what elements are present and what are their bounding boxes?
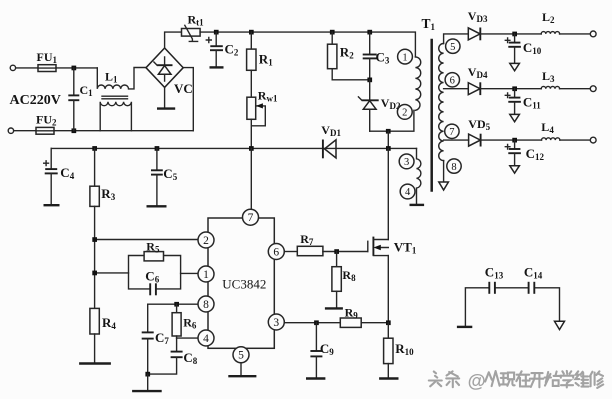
node: R8 tap on gate wire (334, 249, 339, 254)
node: C12 top (512, 138, 517, 143)
node: R6 top on pin8 wire (174, 302, 179, 307)
resistor R2 (328, 32, 370, 80)
wire: output rail 1 (480, 33, 590, 35)
node: pin7 riser (249, 146, 254, 151)
diode VD3 (468, 28, 480, 41)
output terminal 1 (590, 31, 596, 37)
wire: pin 4 to R6/C8 (177, 337, 199, 339)
resistor R6 (172, 304, 181, 338)
ground (C2) (210, 66, 224, 68)
wire: output rail 3 (481, 139, 591, 141)
wire: secondary tap to VD5 (444, 139, 469, 141)
zener diode VD2 (358, 80, 378, 131)
thermistor Rt1 (182, 25, 201, 41)
node: C9 tap (314, 320, 319, 325)
resistor R9 (340, 318, 361, 327)
input terminal bottom (N) (8, 128, 13, 133)
ground (C5) (147, 205, 167, 207)
transformer T1 primary winding (1-2) (415, 57, 420, 110)
svg-text:4: 4 (405, 187, 411, 198)
svg-text:5: 5 (238, 350, 244, 362)
diode VD4 (468, 82, 480, 95)
capacitor C9 (310, 323, 322, 378)
IC pin 2 circle (198, 232, 214, 248)
pin 2 circle (397, 105, 412, 120)
node: C2 top (214, 30, 219, 35)
capacitor C8 (148, 338, 183, 374)
svg-text:8: 8 (451, 162, 456, 173)
ground (bridge) (157, 107, 175, 109)
inductor L1 core (102, 96, 128, 99)
ground arrow (C12) (510, 166, 520, 173)
IC pin 1 circle (198, 266, 214, 282)
wire: pin 8 to C7 (148, 303, 199, 305)
node: drain riser top (386, 129, 391, 134)
capacitor C3 (363, 32, 377, 80)
node: C6 wire on R3 column (92, 271, 97, 276)
capacitor C6 plates (150, 283, 156, 295)
transformer T1 secondary winding (5-8) (439, 44, 444, 161)
bridge rectifier VC (146, 48, 183, 87)
svg-text:AC220V: AC220V (10, 93, 61, 108)
wire: terminal to FU2 (14, 130, 36, 132)
pin 6 circle (445, 73, 459, 87)
ground arrow (C11) (510, 114, 520, 121)
IC pin 8 circle (198, 296, 214, 312)
wire: FU1 to choke (live rail) (56, 67, 97, 69)
ground (C4) (44, 204, 60, 206)
input terminal top (L) (10, 65, 15, 70)
wire: pin 2 to R3/R4 node (95, 239, 199, 241)
svg-text:1: 1 (203, 269, 209, 281)
diode VD5 (469, 134, 481, 147)
wire: terminal to FU1 (16, 67, 38, 69)
wire: secondary bottom lead (443, 161, 445, 182)
svg-text:7: 7 (248, 212, 254, 224)
IC pin 7 circle (243, 209, 259, 225)
pin 5 circle (446, 39, 460, 53)
wire: pin 7 riser (250, 148, 252, 209)
transformer T1 feedback winding (3-4) (417, 148, 421, 203)
wire: pin 3 to source node (284, 322, 388, 324)
ground (R4) (79, 362, 111, 364)
wire: VCC rail (51, 147, 416, 149)
capacitor C4 (polarized) (44, 148, 58, 204)
capacitor C6 loop (R5 parallel C6) (129, 256, 181, 289)
inductor L1 bottom winding (100, 102, 131, 131)
node: C1 bottom junction (72, 128, 77, 133)
wire: drain riser to VCC rail crossing (387, 131, 389, 148)
node: C11 top (512, 86, 517, 91)
capacitor C14 (529, 282, 535, 294)
resistor R3 (90, 148, 99, 308)
wire: secondary mid tap to VD4 (444, 88, 469, 90)
capacitor C1 (68, 68, 79, 131)
IC pin 3 circle (268, 314, 284, 330)
node: pin2 wire on R3 column (92, 237, 97, 242)
svg-text:6: 6 (450, 76, 455, 87)
resistor R4 (90, 308, 99, 362)
node: C7/C8 bottom junction (145, 372, 150, 377)
svg-text:VC: VC (174, 81, 193, 96)
wire: R7 to gate (323, 251, 368, 253)
pin 3 circle (399, 154, 414, 169)
op IC UC3842 box (208, 218, 274, 348)
svg-text:@: @ (468, 370, 486, 391)
pin 8 circle (447, 159, 461, 173)
node: C3 top (367, 30, 372, 35)
resistor R1 (247, 32, 256, 97)
fuse FU1 (38, 65, 56, 72)
resistor R10 (384, 323, 393, 378)
ground (C7/C8) (132, 390, 162, 392)
node: R1 top (249, 30, 254, 35)
svg-text:UC3842: UC3842 (222, 277, 266, 292)
transformer T1 core (430, 39, 433, 192)
inductor L1 top winding (97, 68, 146, 89)
ground (C9) (306, 377, 325, 379)
wire: C6 loop to pin 1 (181, 272, 199, 274)
wire: C6 network left lead (95, 272, 129, 274)
ground (R8) (325, 307, 343, 309)
svg-text:2: 2 (402, 108, 407, 119)
ground (pin 4 lead) (410, 204, 425, 206)
IC pin 4 circle (198, 330, 214, 346)
diode VD1 (323, 140, 336, 159)
capacitor C10 (polarized) (505, 34, 521, 63)
ground arrow (C10) (510, 63, 520, 70)
wire: C13/C14 link (465, 288, 559, 326)
wire: neutral rail under choke (54, 130, 193, 132)
node: C10 top (512, 32, 517, 37)
potentiometer Rw1 (247, 97, 265, 148)
IC pin 5 circle (233, 347, 249, 363)
node: source column junction (386, 320, 391, 325)
node: drain column on rail (386, 146, 391, 151)
IC pin 6 circle (268, 244, 284, 260)
pin 7 circle (445, 124, 459, 138)
output terminal 3 (590, 137, 596, 143)
ground arrow (C14 right) (555, 321, 565, 329)
wire: pin 5 to ground (240, 363, 242, 375)
inductor L2 (541, 32, 559, 34)
inductor L3 (541, 86, 559, 88)
svg-text:4: 4 (203, 333, 209, 345)
wire: bridge bottom to ground (164, 87, 166, 107)
ground (R10) (379, 377, 398, 379)
wire: C7/C8 to ground (147, 374, 149, 390)
resistor R7 (297, 246, 323, 255)
transistor VT1 (MOSFET) (368, 148, 389, 322)
ground (pin 5) (228, 375, 256, 377)
node: C1 top junction (72, 66, 77, 71)
wire: neutral riser to bridge right vertex (183, 68, 193, 131)
svg-text:1: 1 (402, 52, 407, 63)
svg-text:7: 7 (449, 127, 454, 138)
svg-text:8: 8 (203, 299, 209, 311)
wire: bridge top to Rt1 (165, 32, 182, 48)
svg-text:5: 5 (450, 42, 455, 53)
pin 1 circle (398, 49, 413, 64)
inductor L4 (542, 138, 560, 140)
capacitor C5 (151, 148, 163, 205)
capacitor C11 (polarized) (505, 89, 521, 114)
wire: +310V top rail (200, 32, 415, 57)
wire: primary return (pin2 / VD2 anode) (370, 110, 414, 131)
capacitor C12 (polarized) (505, 140, 521, 165)
capacitor C2 (polarized) (206, 32, 223, 66)
capacitor C13 (489, 282, 495, 294)
svg-text:2: 2 (203, 235, 209, 247)
wire: secondary top tap to VD3 (444, 34, 469, 44)
wire: output rail 2 (480, 88, 590, 90)
resistor R5 (144, 252, 163, 261)
resistor R8 (332, 252, 341, 308)
watermark text 头条@从现在开始学维修 (drawn strokes) (429, 370, 603, 391)
capacitor C7 (142, 304, 154, 374)
svg-text:3: 3 (273, 317, 279, 329)
output terminal 2 (590, 86, 596, 92)
fuse FU2 (36, 127, 54, 134)
svg-text:6: 6 (273, 246, 279, 258)
svg-text:3: 3 (404, 157, 409, 168)
node: R2 top (330, 30, 335, 35)
ground arrow (secondary bottom) (439, 182, 449, 190)
node: R2/C3 junction (367, 78, 372, 83)
node: C5 top (155, 146, 160, 151)
pin 4 circle (400, 184, 415, 199)
node: R3 top (92, 146, 97, 151)
wire: pin 6 to R7 (284, 251, 297, 253)
ground (C13 left) (457, 326, 472, 328)
